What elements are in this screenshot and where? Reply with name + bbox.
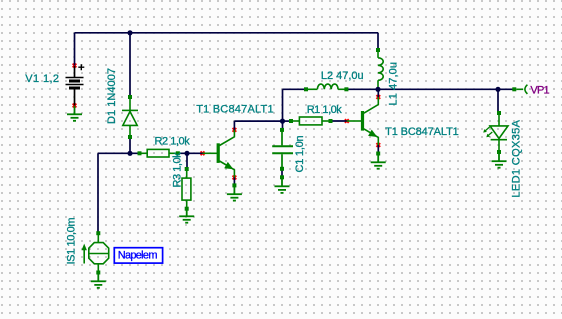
svg-text:LED1 CQX35A: LED1 CQX35A: [510, 119, 522, 197]
junction node (R1 / C1 / collector): [280, 119, 285, 124]
battery V1: [66, 64, 85, 105]
terminal x T1a collector pin: [233, 128, 237, 132]
LED1: [485, 113, 508, 152]
transistor T1 (left): [203, 130, 235, 178]
junction node (top rail / D1): [127, 30, 132, 35]
wire R3 drop: [186, 153, 188, 169]
inductor L1: [378, 50, 383, 89]
wire D1 bottom to node: [129, 137, 131, 153]
junction node (R2 / R3 / base): [184, 151, 189, 156]
svg-text:R3 1,0k: R3 1,0k: [172, 152, 184, 188]
wire L2 right to junction: [346, 88, 378, 90]
terminal x battery bottom pin: [73, 104, 77, 108]
wire D1 drop: [129, 33, 131, 97]
wire LED drop: [497, 89, 499, 113]
resistor R2: [140, 149, 178, 157]
wire top rail: [75, 32, 379, 34]
terminal x T1b base pin: [345, 119, 349, 123]
svg-text:V1 1,2: V1 1,2: [25, 73, 59, 85]
junction node (D1 / R2 / IS1): [127, 151, 132, 156]
transistor T1 (right): [347, 97, 379, 145]
junction node (LED / VP1): [495, 87, 500, 92]
resistor R1: [291, 117, 331, 125]
voltage pin VP1: [516, 85, 527, 94]
wire battery drop: [74, 33, 76, 66]
svg-text:VP1: VP1: [530, 85, 549, 97]
svg-text:C1 1,0n: C1 1,0n: [294, 135, 306, 172]
ground (R3): [179, 209, 194, 223]
wire node horizontal: [98, 152, 140, 154]
ground (C1): [280, 175, 284, 179]
svg-text:L1 47,0u: L1 47,0u: [388, 62, 400, 106]
svg-text:IS1 10,0m: IS1 10,0m: [65, 218, 77, 265]
svg-text:R2 1,0k: R2 1,0k: [155, 135, 191, 147]
wire L1 drop from rail: [377, 33, 379, 50]
terminal x T1a emitter pin: [233, 176, 237, 180]
inductor L2: [306, 84, 346, 89]
terminal x T1a base pin: [201, 151, 205, 155]
ground (T1 right emitter): [376, 152, 380, 156]
svg-text:Napelem: Napelem: [118, 250, 158, 262]
capacitor C1: [272, 130, 293, 169]
wire R1 right to T1b base: [331, 120, 347, 122]
wire IS1 drop: [97, 153, 99, 233]
diode D1: [122, 97, 138, 137]
svg-text:D1 1N4007: D1 1N4007: [106, 68, 118, 124]
wire T1a emitter to ground: [233, 178, 235, 186]
ground (battery): [67, 106, 82, 121]
resistor R3: [182, 169, 191, 209]
wire to L2 left: [283, 88, 307, 90]
Napelem annotation box: [114, 248, 162, 263]
wire mid horizontal: [234, 120, 282, 122]
terminal x T1b collector pin: [376, 95, 380, 99]
wire T1a collector riser: [233, 121, 235, 130]
wire riser to L2: [282, 89, 284, 121]
terminal x battery top pin: [73, 64, 77, 68]
terminal x T1b emitter pin: [376, 143, 380, 147]
svg-text:T1 BC847ALT1: T1 BC847ALT1: [385, 126, 459, 138]
ground (T1 left emitter): [232, 183, 236, 187]
svg-text:L2 47,0u: L2 47,0u: [321, 70, 364, 82]
ground (IS1): [91, 273, 106, 288]
junction node (L1 / L2 / collector): [375, 87, 380, 92]
svg-text:R1 1,0k: R1 1,0k: [307, 104, 343, 116]
wire output to VP1: [378, 88, 514, 90]
wire junction to R1: [283, 120, 292, 122]
current source IS1: [84, 233, 109, 272]
svg-text:T1 BC847ALT1: T1 BC847ALT1: [196, 104, 273, 116]
wire T1b emitter to ground: [377, 145, 379, 154]
ground (LED1): [492, 152, 507, 168]
wire C1 drop: [282, 121, 284, 130]
wire C1 to ground: [281, 169, 283, 178]
wire R2 right to T1 base: [178, 152, 203, 154]
wire T1b collector riser: [377, 89, 379, 97]
